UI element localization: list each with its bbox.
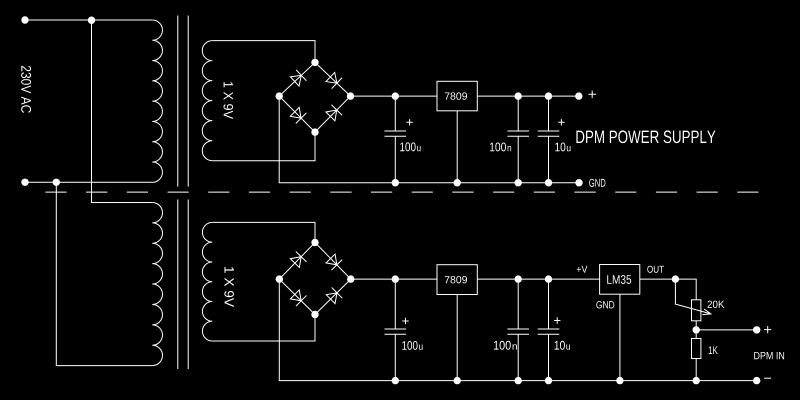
junction (454, 179, 461, 186)
wire (696, 321, 757, 330)
node bridge1 bottom (311, 128, 318, 135)
IC3 LM35 (600, 265, 640, 295)
separator dashed line (45, 191, 758, 193)
wire (25, 181, 152, 183)
label 1K (709, 346, 718, 354)
diode D5 (289, 251, 306, 268)
label 100u bottom (402, 341, 417, 350)
transformer T2 secondary winding (212, 222, 315, 242)
label +V (577, 266, 588, 273)
terminal + (575, 92, 582, 99)
label 20K (707, 301, 724, 308)
junction (392, 377, 399, 384)
junction (515, 377, 522, 384)
label 100n bottom (494, 341, 511, 350)
wire (640, 279, 696, 300)
wire (212, 315, 315, 342)
node bridge1 top (311, 59, 318, 66)
wire (619, 294, 621, 380)
diode D2 (325, 72, 342, 89)
capacitor C4 100u (385, 279, 407, 381)
node bridge1 right (347, 92, 354, 99)
label 7809 bottom (445, 276, 467, 283)
junction (545, 275, 552, 282)
regulator IC2 7809 (437, 265, 477, 295)
junction (545, 179, 552, 186)
junction (392, 275, 399, 282)
diode D3 (289, 107, 306, 124)
label + output (588, 91, 596, 99)
wire (279, 96, 579, 183)
resistor R2 1K (692, 339, 701, 359)
junction (88, 17, 95, 24)
wire (477, 95, 579, 97)
capacitor C3 10u (538, 96, 560, 183)
junction (693, 377, 700, 384)
wire (456, 111, 458, 183)
junction (616, 377, 623, 384)
junction (515, 179, 522, 186)
diode D1 (290, 70, 307, 87)
bridge rectifier B2 (279, 243, 351, 315)
potentiometer R1 20K body (692, 300, 701, 321)
label 100n top (490, 143, 506, 152)
node bridge2 right (347, 275, 354, 282)
junction (693, 326, 700, 333)
regulator IC1 7809 (437, 81, 477, 111)
label 7809 top (445, 92, 467, 99)
terminal DPM + (753, 326, 760, 333)
capacitor C5 100n (507, 279, 529, 381)
junction (53, 179, 60, 186)
label 10u bottom (555, 341, 565, 350)
terminal 230V top (21, 16, 28, 23)
label DPM IN (754, 352, 784, 359)
diode D7 (290, 289, 307, 306)
label GND LM35 (596, 301, 614, 308)
wire (279, 279, 756, 381)
node bridge2 left (276, 275, 283, 282)
junction OUT node (672, 275, 679, 282)
label GND top (589, 179, 605, 187)
junction (392, 92, 399, 99)
wire (456, 295, 458, 381)
diode D6 (325, 253, 342, 270)
junction (515, 275, 522, 282)
label LM35 (607, 275, 631, 284)
terminal GND (575, 179, 582, 186)
label 1 X 9V bottom (224, 267, 234, 307)
label - DPM (764, 377, 771, 379)
wire (695, 330, 697, 381)
label OUT (647, 266, 664, 273)
wire (56, 182, 152, 365)
bridge rectifier B1 (279, 62, 350, 132)
diode D4 (325, 105, 342, 122)
node bridge2 bottom (311, 311, 318, 318)
capacitor C2 100n (507, 96, 529, 183)
junction (545, 92, 552, 99)
label 10u top (555, 143, 565, 152)
wire (92, 20, 153, 203)
capacitor C1 100u (385, 96, 407, 183)
label 100u top (400, 142, 415, 151)
transformer T1 secondary winding (212, 41, 315, 63)
wire (351, 95, 438, 97)
wire (477, 278, 599, 280)
transformer T1 core (178, 16, 188, 187)
label 230V AC (21, 66, 31, 113)
label 1 X 9V top (223, 82, 233, 119)
transformer T1 primary winding (152, 20, 162, 182)
node bridge2 top (311, 239, 318, 246)
wire (25, 19, 152, 21)
diode D8 (325, 288, 342, 305)
junction (454, 377, 461, 384)
capacitor C6 10u (538, 279, 560, 381)
label + DPM (764, 326, 771, 333)
node bridge1 left (276, 92, 283, 99)
transformer T2 primary winding (152, 203, 162, 366)
junction (515, 92, 522, 99)
junction (392, 179, 399, 186)
terminal 230V bottom (21, 179, 28, 186)
junction (545, 377, 552, 384)
terminal DPM - (753, 377, 760, 384)
wire (351, 278, 437, 280)
potentiometer R1 wiper arrow (675, 279, 711, 315)
wire (212, 132, 315, 161)
label DPM POWER SUPPLY (576, 130, 715, 143)
transformer T2 core (178, 200, 188, 370)
